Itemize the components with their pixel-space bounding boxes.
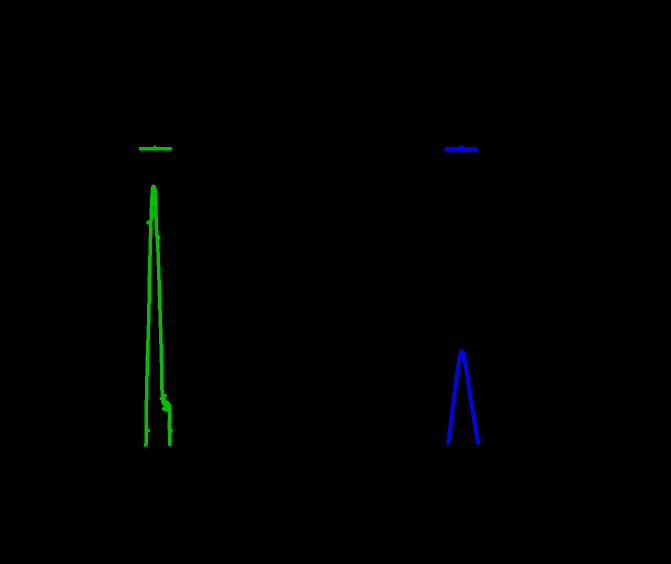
blue curve (448, 351, 478, 444)
green curve (144, 186, 172, 445)
legend dash green bump (154, 146, 156, 148)
green peak solid apex fill (152, 187, 156, 206)
legend dash blue (right subplot) (445, 147, 477, 151)
legend dash green (left subplot) (139, 147, 172, 151)
legend dash blue bump (459, 146, 463, 148)
blue peak solid apex fill (459, 351, 465, 360)
